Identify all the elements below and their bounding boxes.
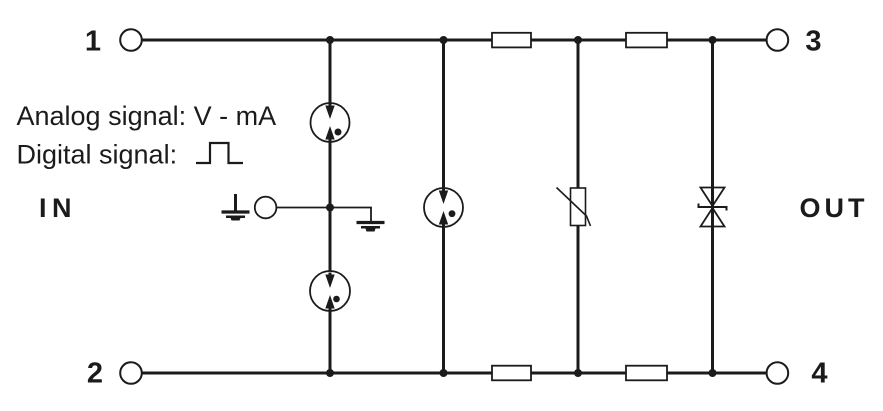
PG terminal circle <box>255 197 277 219</box>
resistor R2 (top right) <box>626 33 667 48</box>
svg-text:IN: IN <box>39 193 77 223</box>
surge arrester F2 (bottom GDT on branch 1) <box>310 271 350 311</box>
svg-text:2: 2 <box>87 358 103 390</box>
junction top branch3 <box>574 36 582 44</box>
wire branch 4 vertical <box>711 40 714 373</box>
junction middle branch1 <box>326 204 334 212</box>
TVS diode D1 <box>699 188 727 227</box>
junction bottom branch1 <box>326 369 334 377</box>
surge arrester F3 (GDT on branch 2) <box>424 188 463 227</box>
wire branch 1 vertical <box>329 40 332 373</box>
wire branch 3 vertical <box>577 40 580 373</box>
terminal 1 <box>120 29 142 51</box>
junction bottom branch2 <box>440 369 448 377</box>
svg-text:OUT: OUT <box>800 193 869 223</box>
resistor R4 (bottom right) <box>626 366 667 381</box>
resistor R1 (top left) <box>492 33 531 48</box>
varistor RV1 <box>557 188 591 227</box>
resistor R3 (bottom left) <box>492 366 531 381</box>
wire bottom rail <box>142 372 767 375</box>
svg-text:3: 3 <box>805 26 821 58</box>
wire branch 2 vertical <box>442 40 445 373</box>
junction bottom branch3 <box>574 369 582 377</box>
junction top branch1 <box>326 36 334 44</box>
ground 2 (right) <box>357 223 385 232</box>
svg-text:1: 1 <box>85 26 101 58</box>
pulse symbol <box>196 143 243 163</box>
terminal 2 <box>120 362 142 384</box>
wire middle from PG terminal to branch 1 <box>277 207 331 209</box>
terminal 4 <box>767 362 789 384</box>
surge arrester F1 (top GDT on branch 1) <box>311 103 350 142</box>
wire top rail <box>142 39 767 42</box>
junction top branch4 <box>709 36 717 44</box>
svg-text:Analog signal: V - mA: Analog signal: V - mA <box>17 101 277 131</box>
svg-text:Digital signal:: Digital signal: <box>17 140 178 170</box>
ground 1 (left, with stem) <box>222 194 250 221</box>
wire middle from branch 1 to ground drop <box>330 208 371 222</box>
svg-text:4: 4 <box>811 358 827 390</box>
junction top branch2 <box>440 36 448 44</box>
terminal 3 <box>767 29 789 51</box>
junction bottom branch4 <box>709 369 717 377</box>
